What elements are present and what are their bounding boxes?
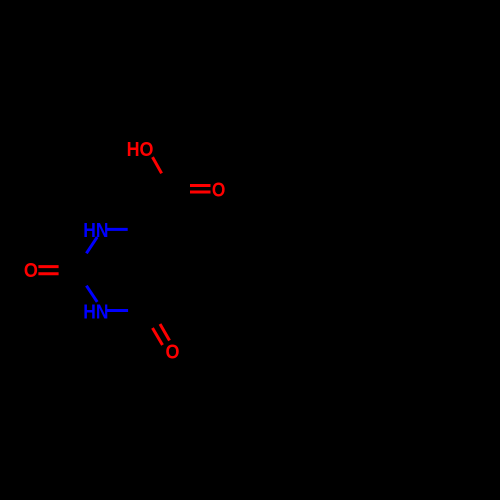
- bond N1-C2 blue half: [86, 237, 97, 253]
- svg-text:O: O: [166, 340, 180, 363]
- carboxyl C=O double bond red halves: [190, 184, 211, 187]
- svg-text:HO: HO: [127, 138, 154, 161]
- svg-text:O: O: [24, 259, 38, 282]
- C6=O double bond red halves: [153, 328, 163, 345]
- bond O-C(carboxyl) red half: [153, 157, 162, 173]
- bond N1-C4 blue half: [107, 228, 128, 231]
- svg-text:HN: HN: [83, 300, 108, 323]
- bond N3-C6 blue half: [107, 309, 128, 312]
- svg-text:O: O: [212, 178, 226, 201]
- bond N3-C2 blue half: [86, 286, 97, 302]
- C2=O double bond red halves: [38, 265, 58, 268]
